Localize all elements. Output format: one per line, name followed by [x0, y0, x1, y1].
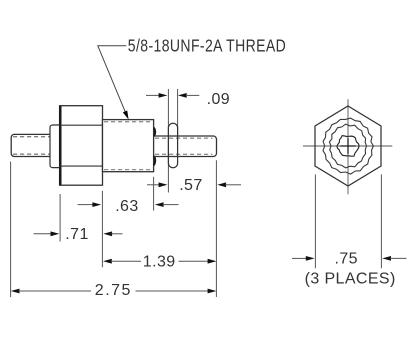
threaded barrel	[103, 120, 154, 172]
thread ring outer (wavy)	[323, 118, 373, 174]
extension line hex-flat-right for .75	[380, 174, 382, 268]
extension line hex-left for .71	[59, 194, 61, 242]
hex nut body	[60, 106, 103, 186]
hex nut dark left edge	[59, 106, 61, 185]
leader line for thread callout	[98, 46, 127, 112]
extension line stud-left for 2.75	[10, 162, 12, 298]
svg-text:2.75: 2.75	[95, 282, 132, 299]
hex facet line upper	[60, 124, 103, 126]
left stud thread dashed lines	[13, 136, 50, 138]
center mark cross	[340, 145, 356, 147]
right stud thread dashed lines	[155, 137, 213, 139]
retaining washer ellipse	[168, 123, 177, 168]
washer flange	[50, 125, 60, 168]
inner scalloped hex socket	[337, 136, 359, 157]
dim .63	[78, 204, 94, 206]
vertical centerline	[347, 99, 349, 194]
svg-text:.75: .75	[335, 251, 358, 268]
extension line washer-left for .09/.57	[167, 89, 169, 193]
dim .75	[292, 257, 307, 259]
barrel thread dashed lines	[104, 121, 153, 123]
hex facet line lower	[60, 165, 103, 167]
extension line body-right for .63	[153, 177, 155, 211]
svg-text:.63: .63	[115, 198, 138, 215]
right stud outline	[154, 136, 217, 157]
svg-text:1.39: 1.39	[143, 253, 176, 270]
dim .09	[146, 94, 160, 96]
svg-text:.09: .09	[207, 91, 230, 108]
horizontal centerline	[303, 145, 392, 147]
extension line hex-right for .63/.71/1.39	[101, 191, 103, 267]
dim .71	[34, 233, 52, 235]
chamfer crescent lower	[154, 156, 155, 165]
extension line washer-right for .09	[177, 89, 179, 135]
dim .57	[147, 184, 160, 186]
extension line stud-right-end for .57/1.39/2.75	[215, 160, 217, 297]
hexagon outline	[315, 106, 381, 186]
leader arrowhead	[123, 111, 129, 120]
dim 1.39	[103, 259, 112, 264]
extension line hex-flat-left for .75	[314, 174, 316, 268]
svg-text:(3 PLACES): (3 PLACES)	[305, 270, 396, 287]
dim 2.75	[11, 289, 20, 294]
svg-text:5/8-18UNF-2A THREAD: 5/8-18UNF-2A THREAD	[128, 36, 286, 56]
thread ring inner (wavy)	[329, 124, 366, 168]
svg-text:.71: .71	[65, 226, 88, 243]
svg-text:.57: .57	[179, 177, 202, 194]
left stud outline	[11, 134, 50, 156]
chamfer crescent upper	[154, 128, 155, 137]
